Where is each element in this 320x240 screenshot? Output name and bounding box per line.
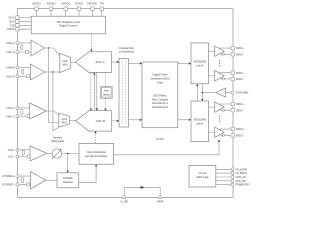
svg-text:DRVDD: DRVDD [87, 2, 97, 6]
divider adjust arrow [52, 149, 61, 159]
arrowhead up into clock distribution bottom [95, 164, 97, 166]
output driver lane 3 [215, 127, 225, 137]
arrowhead into crossbar lower [117, 120, 119, 122]
wires driver 2 outputs [220, 104, 232, 110]
vertical bus from buffer A to mux B [49, 48, 59, 123]
buffer amp channel B [30, 64, 44, 80]
wire stubs from top pins into SPI block [37, 10, 102, 16]
svg-text:Nominal: Nominal [53, 136, 62, 139]
wire SYSREF detection to clock distribution [79, 166, 96, 182]
svg-text:SRD0−: SRD0− [236, 53, 245, 56]
svg-text:Delay Adjust: Delay Adjust [51, 140, 65, 143]
wire crossbar to DDC lower [129, 119, 140, 121]
clock wire ADC B to ADC A [93, 75, 95, 111]
pin VIN+B circle [16, 66, 19, 69]
svg-text:Real, Complex: Real, Complex [152, 98, 169, 101]
wire buffer C to mux B [46, 111, 59, 115]
coupling element channel A [26, 51, 29, 54]
svg-text:AVDD3: AVDD3 [61, 2, 71, 6]
arrowhead up into link A bottom [196, 84, 198, 86]
wire clock distribution to serializers [114, 142, 220, 155]
pin SERDOUT0- square [231, 53, 234, 56]
wire junction down to sysref detection [67, 154, 69, 171]
inversion bubble lane 1 [222, 78, 224, 80]
pin SERDOUT1- square [231, 77, 234, 80]
dashed control wire SPI block to ADC A [90, 34, 92, 50]
buffer amp channel C [30, 103, 47, 119]
arrowhead into DDC upper [140, 62, 142, 64]
svg-text:CLK−: CLK− [8, 155, 15, 159]
svg-text:VIN−B: VIN−B [6, 74, 15, 78]
wires driver 0 outputs [220, 48, 232, 54]
svg-text:Detection: Detection [63, 181, 74, 184]
arrowhead into DDC lower [140, 119, 142, 121]
termination element channel B [21, 69, 23, 74]
output driver lane 2 [215, 102, 225, 112]
wire mux B to ADC B [70, 119, 76, 121]
wire DDC to JESD link B [178, 119, 189, 121]
clock input buffer [30, 146, 47, 161]
arrowhead up into ADC B bottom [94, 131, 96, 133]
svg-text:SYSREF+: SYSREF+ [2, 174, 15, 178]
output driver lane 0 [215, 46, 225, 56]
wire SYNCINB pin to buffer [226, 92, 231, 94]
svg-text:Crossbar Mux: Crossbar Mux [118, 47, 134, 50]
svg-text:SYNCINB±: SYNCINB± [236, 92, 249, 95]
pin PD square [100, 7, 103, 10]
clock wire ADC A to ADC B [96, 72, 98, 108]
wire link A to link B [201, 84, 203, 99]
output driver lane 1 [215, 71, 225, 81]
pin CLK- circle [16, 155, 19, 158]
svg-text:PDWN/STBY: PDWN/STBY [236, 184, 251, 187]
svg-text:GPIO_A0: GPIO_A0 [236, 176, 247, 179]
pin SYSREF- circle [16, 183, 19, 186]
svg-text:AVDD1: AVDD1 [32, 2, 42, 6]
wires SPI pins to SPI block [19, 18, 31, 30]
coupling element CLK [27, 155, 30, 158]
svg-text:VIN+B: VIN+B [6, 66, 15, 70]
vertical bus from buffer B to mux B [53, 72, 59, 131]
dashed clock wire to ADC B [95, 133, 97, 143]
svg-text:Dual: Dual [157, 81, 163, 85]
wire link B to link A [196, 86, 198, 101]
ADC B core [76, 111, 112, 131]
wire ADC B to crossbar [112, 120, 117, 122]
svg-text:V_1P0: V_1P0 [120, 201, 128, 204]
wire link B to driver 2 [209, 106, 215, 108]
svg-text:VIN−A: VIN−A [6, 50, 15, 54]
inversion bubble lane 2 [222, 109, 224, 111]
junction node buffer A tap [48, 47, 50, 49]
wire buffer A to mux A [45, 48, 60, 56]
wire link A to driver 0 [209, 50, 215, 52]
JESD204B link A block [191, 43, 209, 84]
svg-text:VREF: VREF [157, 201, 164, 204]
svg-text:JESD204B: JESD204B [193, 59, 206, 63]
arrowhead into link A [189, 62, 191, 64]
wires driver 1 outputs [220, 73, 232, 79]
wire link A to driver 1 [209, 75, 215, 77]
svg-text:PDWN: PDWN [7, 28, 15, 31]
wire link B to driver 3 [209, 131, 215, 133]
svg-text:PD: PD [100, 2, 104, 6]
wires VIN A pins to buffer [19, 43, 31, 52]
arrowhead into ADC B top from dashed control [90, 109, 92, 111]
pin SYSREF+ circle [16, 175, 19, 178]
wires SYSREF pins to buffer [19, 176, 31, 184]
SYNCINB input buffer [216, 88, 226, 97]
wire crossbar to DDC upper [129, 63, 140, 65]
pin FD_A circle [231, 168, 234, 171]
arrowhead up into ADC A bottom [93, 72, 95, 74]
svg-text:SRD3−: SRD3− [236, 134, 245, 137]
arrowhead up to serializer clock [218, 140, 220, 142]
SPI pin squares on left border [16, 16, 19, 31]
termination element SYSREF [21, 178, 23, 183]
svg-text:FD_A/GP0: FD_A/GP0 [236, 168, 248, 171]
svg-text:CSB: CSB [10, 24, 15, 27]
wire clock buffer to divider [47, 152, 52, 154]
wires GPIO block outputs [216, 169, 231, 184]
arrowhead into crossbar upper [117, 61, 119, 63]
wires driver 3 outputs [220, 129, 232, 135]
clock divider / delay adjust symbol [52, 149, 61, 158]
svg-text:Input: Input [63, 60, 69, 63]
arrowhead fast detect to ADC B top [104, 109, 106, 111]
buffer amp channel A [31, 40, 45, 56]
lane dots group B [219, 116, 220, 122]
wire mux A to ADC A [71, 62, 76, 64]
dashed wire ADC A to fast detect block [104, 72, 106, 108]
pin AVDD3 square [64, 7, 67, 10]
clock distribution block [79, 143, 114, 164]
pin SYNCINB circle [231, 91, 234, 94]
pin VIN+C circle [16, 106, 19, 109]
svg-text:VIN−C: VIN−C [6, 114, 15, 118]
svg-text:VIN+A: VIN+A [6, 41, 15, 45]
pin VIN-A circle [16, 51, 19, 54]
pin DRVDD square [91, 7, 94, 10]
pin SERDOUT0+ square [231, 46, 234, 49]
svg-text:Converter (DDC): Converter (DDC) [150, 77, 170, 81]
svg-text:SYSREF−: SYSREF− [2, 183, 15, 187]
svg-text:Link A: Link A [196, 63, 203, 67]
pin GPIO_B1 circle [231, 183, 234, 186]
coupling element SYSREF [27, 183, 30, 186]
JESD204B link B block [191, 101, 209, 142]
arrowhead into ADC A top [90, 50, 92, 52]
arrowhead into link B [189, 119, 191, 121]
dashed control wire ADC A to ADC B [90, 72, 92, 109]
svg-text:SRD1+: SRD1+ [236, 72, 245, 75]
junction node clock to sysref detect [67, 153, 69, 155]
svg-text:ADC A: ADC A [95, 60, 105, 64]
svg-text:FD and: FD and [198, 172, 207, 175]
crossbar mux block [119, 58, 129, 127]
wire SYSREF buffer to detection block [46, 179, 57, 181]
pin VIN+A circle [16, 41, 19, 44]
svg-text:SRD0+: SRD0+ [236, 47, 245, 50]
svg-text:DVDD: DVDD [75, 2, 83, 6]
coupling element channel B [27, 75, 30, 78]
pin FD_B circle [231, 172, 234, 175]
termination element channel A [21, 45, 23, 50]
SPI registers and control block U10 [31, 16, 105, 34]
arrowhead reference wire [141, 186, 145, 189]
svg-text:AVDD2: AVDD2 [46, 2, 56, 6]
inversion bubble lane 0 [222, 53, 224, 55]
svg-text:Link B: Link B [196, 121, 203, 125]
arrowhead down into link B top [201, 99, 203, 101]
wire SYNCINB buffer to links [202, 92, 216, 94]
svg-text:Digital Control: Digital Control [59, 24, 78, 28]
svg-text:SYSREF: SYSREF [63, 177, 73, 180]
svg-text:JESD204B: JESD204B [193, 117, 206, 121]
wires VIN C pins to buffer [19, 108, 30, 116]
pin SERDOUT3+ square [231, 127, 234, 130]
svg-text:SRD3+: SRD3+ [236, 128, 245, 131]
pin DVDD square [77, 7, 80, 10]
svg-text:CLK+: CLK+ [8, 148, 15, 152]
DDC block [142, 62, 178, 128]
junction node buffer B tap [52, 71, 54, 73]
svg-text:Clock Distribution: Clock Distribution [86, 151, 106, 154]
pin GPIO_A0 circle [231, 176, 234, 179]
pin AVDD1 square [35, 7, 104, 10]
wire divider to clock distribution block [62, 153, 79, 155]
wire V_1P0 to VREF [124, 187, 160, 196]
pin V_1P0 circle [123, 196, 126, 199]
svg-text:DVDD: DVDD [156, 137, 163, 141]
arrowhead down into ADC B top [96, 109, 98, 111]
pin SERDOUT1+ square [231, 71, 234, 74]
lane dots group A [219, 60, 220, 66]
svg-text:DDC Filters:: DDC Filters: [153, 95, 167, 98]
svg-text:Decimate by 8: Decimate by 8 [152, 106, 169, 109]
termination element CLK [22, 150, 24, 155]
wire buffer B to mux A [45, 71, 60, 73]
SYSREF input buffer [31, 172, 46, 190]
pin VREF circle [159, 196, 162, 199]
svg-text:SCLK: SCLK [8, 17, 15, 20]
input mux B [59, 113, 70, 127]
svg-text:Detect: Detect [103, 93, 110, 96]
svg-text:and Synchronization: and Synchronization [85, 155, 108, 158]
input mux A [60, 53, 71, 72]
svg-text:MUX: MUX [63, 64, 69, 67]
svg-text:Fast: Fast [104, 90, 109, 93]
chip outline border [17, 9, 233, 198]
svg-text:SDIO: SDIO [9, 20, 15, 23]
wire DDC to JESD link A [178, 63, 189, 65]
svg-text:SRD1−: SRD1− [236, 78, 245, 81]
svg-text:GPIO_B0: GPIO_B0 [236, 180, 247, 183]
pin CLK+ circle [16, 148, 19, 151]
arrowhead into sysref detection top [67, 171, 69, 173]
pin SERDOUT2+ square [231, 102, 234, 105]
pin SERDOUT2- square [231, 109, 234, 112]
inversion bubble lane 3 [222, 134, 224, 136]
svg-text:MUX: MUX [62, 121, 68, 124]
wire ADC A to crossbar [112, 61, 118, 63]
SYSREF detection block [57, 173, 79, 188]
svg-text:VIN+C: VIN+C [6, 106, 15, 110]
svg-text:SRD2−: SRD2− [236, 109, 245, 112]
junction node SYNCINB [202, 92, 204, 94]
termination element channel C [21, 109, 23, 114]
svg-text:Digital Down: Digital Down [152, 73, 168, 77]
pin GPIO_B0 circle [231, 179, 234, 182]
pin VIN-C circle [16, 115, 19, 118]
svg-text:SRD2+: SRD2+ [236, 103, 245, 106]
wires VIN B pins to buffer [19, 67, 31, 76]
pin VIN-B circle [16, 75, 19, 78]
svg-text:FD_B/GP1: FD_B/GP1 [236, 172, 248, 175]
svg-text:ADC B: ADC B [96, 119, 105, 123]
wires CLK pins to buffer [19, 150, 31, 157]
GPIO fast detect block [189, 166, 216, 188]
fast detect block (double outline) [100, 87, 112, 99]
crossbar internal dashed routes [122, 61, 125, 126]
svg-text:or Monitoring: or Monitoring [119, 51, 134, 54]
pin SERDOUT3- square [231, 134, 234, 137]
svg-text:GPIO Logic: GPIO Logic [196, 176, 209, 179]
ADC A core [76, 52, 112, 73]
coupling element channel C [27, 115, 30, 118]
pin AVDD2 square [49, 7, 52, 10]
svg-text:Decimate by 4: Decimate by 4 [152, 102, 169, 105]
